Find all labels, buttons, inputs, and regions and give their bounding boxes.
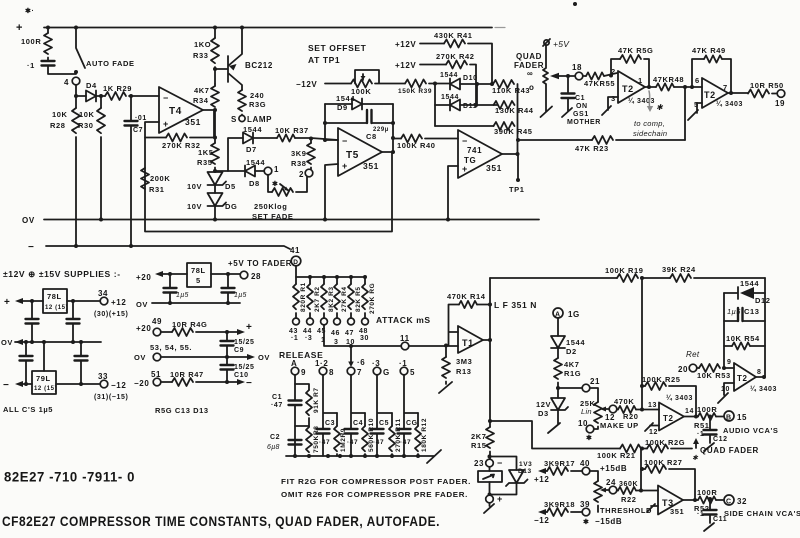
svg-text:−: − xyxy=(28,242,34,253)
svg-text:+12V: +12V xyxy=(395,40,416,49)
capacitor 1u5 a xyxy=(169,274,171,287)
resistor R3 8K2 xyxy=(323,277,325,284)
op-amp T4 xyxy=(159,87,203,133)
svg-text:47K R5G: 47K R5G xyxy=(618,46,653,55)
capacitor C8 229p xyxy=(325,122,367,124)
svg-text:46: 46 xyxy=(331,330,340,337)
resistor R55 47K xyxy=(583,75,586,77)
svg-text:100K R21: 100K R21 xyxy=(597,451,636,460)
svg-text:+: + xyxy=(163,119,169,129)
svg-text:D7: D7 xyxy=(246,145,257,154)
svg-text:47KR48: 47KR48 xyxy=(653,75,684,84)
svg-text:21: 21 xyxy=(590,377,600,386)
resistor R30 10K xyxy=(99,94,103,98)
svg-text:·47: ·47 xyxy=(373,439,384,446)
zener D6 10V xyxy=(214,185,216,193)
svg-text:✱: ✱ xyxy=(586,434,592,442)
resistor R2 2K7 xyxy=(309,277,311,284)
svg-text:+: + xyxy=(462,164,468,174)
svg-text:3K9: 3K9 xyxy=(291,149,307,158)
svg-text:·1: ·1 xyxy=(27,61,35,70)
svg-text:−: − xyxy=(462,136,468,146)
diode D4 xyxy=(76,95,86,97)
svg-text:MOTHER: MOTHER xyxy=(567,119,601,126)
svg-text:351: 351 xyxy=(670,507,684,516)
svg-text:19: 19 xyxy=(775,99,785,108)
svg-text:DG: DG xyxy=(225,202,237,211)
resistor R23 47K xyxy=(592,136,613,144)
svg-text:130K R44: 130K R44 xyxy=(495,106,534,115)
capacitor 1u5 b xyxy=(227,274,229,287)
switch AUTO FADE xyxy=(76,28,85,69)
node 4 xyxy=(72,77,80,85)
svg-text:32: 32 xyxy=(737,497,747,506)
svg-text:10K R54: 10K R54 xyxy=(726,334,760,343)
svg-text:−: − xyxy=(246,378,252,389)
svg-text:QUAD FADER: QUAD FADER xyxy=(700,446,759,455)
wire T5 output xyxy=(382,151,393,153)
svg-text:¼ 3403: ¼ 3403 xyxy=(750,385,777,393)
svg-text:49: 49 xyxy=(152,317,162,326)
svg-text:FIT R2G FOR COMPRESSOR POST FA: FIT R2G FOR COMPRESSOR POST FADER. xyxy=(281,477,471,486)
svg-text:8: 8 xyxy=(329,368,334,377)
svg-text:T4: T4 xyxy=(169,106,182,117)
wire -12V line xyxy=(325,83,351,85)
svg-text:+12: +12 xyxy=(111,298,126,307)
wire to node 28 xyxy=(211,273,240,275)
svg-text:100R: 100R xyxy=(697,488,717,497)
svg-text:270K R11: 270K R11 xyxy=(395,418,402,452)
resistor R42 270K xyxy=(420,64,446,66)
svg-text:10: 10 xyxy=(721,386,730,393)
svg-text:R38: R38 xyxy=(291,159,307,168)
svg-text:ALL C'S 1µ5: ALL C'S 1µ5 xyxy=(3,405,53,414)
resistor R36 240 xyxy=(238,90,246,111)
capacitor C1r .47 xyxy=(294,375,296,400)
resistor 100R xyxy=(47,28,49,34)
wire T2a pin3 ground xyxy=(602,97,618,115)
wire R21 row xyxy=(490,421,620,449)
transistor Q BC212 xyxy=(213,67,217,71)
resistor R41 430K xyxy=(420,43,444,45)
svg-text:1M2R9: 1M2R9 xyxy=(340,428,347,452)
svg-text:430K R41: 430K R41 xyxy=(434,31,473,40)
resistor R44 130K xyxy=(474,103,478,107)
svg-text:10R R47: 10R R47 xyxy=(170,370,204,379)
svg-text:1544: 1544 xyxy=(243,125,262,134)
svg-text:−: − xyxy=(342,136,348,146)
svg-text:✱: ✱ xyxy=(272,180,278,188)
resistor R19 100K xyxy=(617,274,638,282)
svg-text:10R R50: 10R R50 xyxy=(750,81,784,90)
svg-text:39: 39 xyxy=(580,500,590,509)
svg-text:10K: 10K xyxy=(52,110,68,119)
svg-text:10R R4G: 10R R4G xyxy=(172,320,207,329)
pot 25K Lin xyxy=(590,388,598,402)
svg-text:741: 741 xyxy=(467,146,482,155)
svg-text:·47: ·47 xyxy=(271,402,283,409)
resistor R8 750K xyxy=(295,426,309,427)
capacitor C7 .01 xyxy=(129,94,133,98)
svg-text:R15: R15 xyxy=(471,441,487,450)
svg-text:T1: T1 xyxy=(462,338,474,348)
capacitor C10 15/25 xyxy=(226,357,228,364)
svg-text:C1: C1 xyxy=(272,394,282,401)
svg-text:100R: 100R xyxy=(21,37,41,46)
svg-text:1KO: 1KO xyxy=(194,40,211,49)
resistor R31 200K xyxy=(141,168,149,189)
svg-text:−: − xyxy=(163,93,169,103)
svg-text:D8: D8 xyxy=(249,179,260,188)
svg-text:+5V TO FADER: +5V TO FADER xyxy=(228,259,292,268)
svg-text:20: 20 xyxy=(678,365,688,374)
svg-text:−12V: −12V xyxy=(296,80,317,89)
op-amp T1 LF351N xyxy=(458,326,483,353)
resistor R48 47K xyxy=(656,83,674,90)
node 28 xyxy=(240,271,248,279)
svg-text:C7: C7 xyxy=(133,127,143,134)
regulator 78L 5 xyxy=(187,263,211,287)
svg-text:ATTACK mS: ATTACK mS xyxy=(376,315,431,325)
resistor R24 39K xyxy=(670,274,691,282)
svg-text:−15dB: −15dB xyxy=(595,517,622,526)
node 7 xyxy=(347,367,355,375)
svg-text:−20: −20 xyxy=(134,379,149,388)
resistor R50 10R xyxy=(748,90,769,98)
resistor R37 10K xyxy=(277,134,295,141)
svg-text:R35: R35 xyxy=(197,158,213,167)
svg-text:9: 9 xyxy=(727,359,732,366)
node 11 xyxy=(401,342,409,350)
svg-text:1K5: 1K5 xyxy=(198,148,214,157)
resistor R32 270K feedback xyxy=(145,137,166,139)
svg-text:R22: R22 xyxy=(621,495,637,504)
resistor R14 470K feedback xyxy=(449,305,460,346)
svg-text:T2: T2 xyxy=(704,90,716,100)
svg-text:T2: T2 xyxy=(622,84,634,94)
resistor R16 4K7 xyxy=(557,348,559,358)
lamp xyxy=(239,115,245,121)
svg-text:6µ8: 6µ8 xyxy=(267,444,280,451)
op-amp T3 xyxy=(658,486,683,515)
SECTION top-left autofade xyxy=(16,7,539,253)
svg-text:C: C xyxy=(726,499,732,506)
node 39 xyxy=(582,508,590,516)
wire T6 output xyxy=(502,153,518,155)
svg-text:180K R12: 180K R12 xyxy=(421,418,428,452)
wire T4 output xyxy=(203,109,215,111)
zener D5 10V xyxy=(213,169,217,173)
svg-text:TP1: TP1 xyxy=(509,185,525,194)
svg-text:351: 351 xyxy=(185,117,201,127)
resistor R7 91K xyxy=(295,384,309,390)
wire +12 line xyxy=(67,300,100,302)
wire attack bus xyxy=(296,266,365,277)
svg-text:1µ5: 1µ5 xyxy=(727,307,741,316)
svg-text:OV: OV xyxy=(136,300,148,309)
svg-text:AT TP1: AT TP1 xyxy=(308,55,340,65)
op-amp T5 xyxy=(338,128,382,176)
svg-text:82E27 -710 -7911- 0: 82E27 -710 -7911- 0 xyxy=(4,470,135,485)
net 0V psu2 xyxy=(152,302,240,304)
resistor R27 100K feedback xyxy=(640,467,644,471)
op-amp T2a xyxy=(618,71,645,103)
capacitor C1 xyxy=(566,74,570,78)
svg-text:D: D xyxy=(293,259,298,266)
resistor R12 180K xyxy=(417,413,419,426)
svg-text:(30)(+15): (30)(+15) xyxy=(94,311,128,318)
capacitor C5 .47 xyxy=(377,375,392,428)
resistor R39 150K xyxy=(405,80,426,88)
wire T5 plus input xyxy=(325,164,338,220)
svg-text:270K R32: 270K R32 xyxy=(162,141,201,150)
zener D3 12V xyxy=(556,386,560,390)
diode D12 1544 xyxy=(724,292,765,294)
capacitor C13 1u5 xyxy=(724,320,738,322)
svg-text:✱: ✱ xyxy=(656,103,664,112)
wire node4 down xyxy=(75,85,77,96)
svg-text:390K R45: 390K R45 xyxy=(494,127,533,136)
resistor R10 560K xyxy=(364,413,366,426)
svg-text:C8: C8 xyxy=(366,132,377,141)
capacitor C11 .1 xyxy=(708,497,712,501)
svg-text:SIDE CHAIN VCA'S: SIDE CHAIN VCA'S xyxy=(724,509,800,518)
wire T2c output xyxy=(756,376,765,378)
svg-text:100K R25: 100K R25 xyxy=(642,375,681,384)
svg-text:3K9R18: 3K9R18 xyxy=(544,500,575,509)
wire attack tap to T1 xyxy=(324,325,458,346)
svg-text:OV: OV xyxy=(258,353,270,362)
wire R23 junction xyxy=(516,138,520,142)
svg-text:1544: 1544 xyxy=(246,158,265,167)
regulator 78L xyxy=(43,289,67,313)
svg-text:15/25: 15/25 xyxy=(234,339,255,346)
resistor R56 47K feedback xyxy=(609,74,613,78)
resistor R4 27K xyxy=(336,277,338,284)
svg-text:11: 11 xyxy=(400,334,410,343)
op-amp T2d xyxy=(659,403,684,431)
svg-text:T2: T2 xyxy=(663,414,674,423)
svg-text:D3: D3 xyxy=(538,409,549,418)
svg-text:33: 33 xyxy=(98,372,108,381)
svg-text:SET OFFSET: SET OFFSET xyxy=(308,43,367,53)
svg-text:R34: R34 xyxy=(193,96,209,105)
svg-text:CG: CG xyxy=(406,420,418,427)
svg-text:+: + xyxy=(342,161,348,171)
svg-text:+5V: +5V xyxy=(553,39,570,49)
svg-text:100K: 100K xyxy=(351,87,371,96)
svg-text:LAMP: LAMP xyxy=(247,115,272,124)
svg-text:ON: ON xyxy=(576,103,588,110)
svg-text:Lin: Lin xyxy=(581,407,592,416)
resistor R33 1K0 xyxy=(214,28,216,39)
svg-text:−12: −12 xyxy=(111,381,126,390)
resistor R26 100K xyxy=(640,447,644,451)
svg-text:15/25: 15/25 xyxy=(234,364,255,371)
svg-text:3: 3 xyxy=(611,94,616,103)
svg-text:1: 1 xyxy=(274,165,279,174)
svg-text:1544: 1544 xyxy=(566,338,585,347)
svg-text:D13: D13 xyxy=(518,468,532,475)
svg-text:R51: R51 xyxy=(694,421,710,430)
svg-text:−: − xyxy=(497,458,503,468)
svg-text:10K R53: 10K R53 xyxy=(697,371,731,380)
svg-text:+12: +12 xyxy=(534,475,549,484)
svg-text:✱: ✱ xyxy=(583,518,589,526)
svg-text:R3G: R3G xyxy=(249,100,266,109)
svg-text:L F 351 N: L F 351 N xyxy=(494,300,537,310)
svg-text:R13: R13 xyxy=(456,367,472,376)
wire T2d output xyxy=(684,416,698,418)
op-amp T6 741 xyxy=(458,130,502,178)
svg-text:560K R10: 560K R10 xyxy=(368,418,375,452)
svg-text:12V: 12V xyxy=(536,400,551,409)
svg-text:+20: +20 xyxy=(136,273,151,282)
svg-text:MAKE UP: MAKE UP xyxy=(600,421,639,430)
svg-text:110K R43: 110K R43 xyxy=(492,86,530,95)
resistor R43 110K xyxy=(475,82,479,86)
node 23 xyxy=(488,455,492,459)
svg-text:240: 240 xyxy=(250,91,264,100)
svg-text:+20: +20 xyxy=(136,324,151,333)
svg-text:R1G: R1G xyxy=(564,369,581,378)
wire 0V junction dots xyxy=(99,218,103,222)
wire junction dots top rail xyxy=(46,26,50,30)
svg-text:1: 1 xyxy=(638,76,643,85)
svg-text:8K2 R3: 8K2 R3 xyxy=(328,286,335,312)
svg-text:53, 54, 55.: 53, 54, 55. xyxy=(150,343,192,352)
svg-text:AUDIO VCA'S: AUDIO VCA'S xyxy=(723,426,778,435)
regulator 79L xyxy=(43,342,45,371)
svg-text:4K7: 4K7 xyxy=(564,360,580,369)
svg-text:4K7: 4K7 xyxy=(194,86,210,95)
resistor R54 10K xyxy=(724,345,732,347)
svg-text:10V: 10V xyxy=(187,202,202,211)
resistor R20 470K xyxy=(617,409,618,411)
svg-text:·01: ·01 xyxy=(135,115,147,122)
svg-text:·47: ·47 xyxy=(400,439,411,446)
svg-text:·47: ·47 xyxy=(319,439,330,446)
svg-text:OMIT R26 FOR COMPRESSOR PRE FA: OMIT R26 FOR COMPRESSOR PRE FADER. xyxy=(281,490,468,499)
node B 15 audio xyxy=(724,411,734,421)
resistor R28 10K xyxy=(75,96,77,108)
node 18 xyxy=(575,72,583,80)
arrow quad fader xyxy=(695,442,697,448)
svg-text:1µ5: 1µ5 xyxy=(176,292,189,299)
svg-text:±12V ⊕ ±15V SUPPLIES :-: ±12V ⊕ ±15V SUPPLIES :- xyxy=(3,269,121,279)
svg-text:D12: D12 xyxy=(755,296,771,305)
resistor R25 100K feedback xyxy=(640,384,644,388)
svg-text:470K: 470K xyxy=(614,397,634,406)
capacitor C3 .47 xyxy=(323,375,337,428)
svg-text:1544: 1544 xyxy=(441,94,459,101)
svg-text:2: 2 xyxy=(299,170,304,179)
arrow to comp sidechain xyxy=(649,91,650,108)
svg-text:OV: OV xyxy=(134,353,146,362)
svg-text:5: 5 xyxy=(196,276,201,285)
svg-text:10: 10 xyxy=(578,419,588,428)
resistor R51 100R xyxy=(698,413,716,420)
svg-text:R33: R33 xyxy=(193,51,209,60)
svg-text:T2: T2 xyxy=(737,374,748,383)
svg-text:to comp,: to comp, xyxy=(634,119,665,128)
node 33 xyxy=(100,380,108,388)
svg-text:R20: R20 xyxy=(623,412,639,421)
pot 250K log SET FADE xyxy=(268,175,272,192)
svg-text:12: 12 xyxy=(649,429,658,436)
resistor R45 390K xyxy=(435,125,494,127)
svg-text:R30: R30 xyxy=(78,121,94,130)
svg-text:470K R14: 470K R14 xyxy=(447,292,486,301)
svg-text:351: 351 xyxy=(363,161,379,171)
wire T2a output xyxy=(645,86,656,88)
resistor R34 4K7 xyxy=(214,84,216,86)
node A 16 xyxy=(553,308,563,318)
svg-text:D5: D5 xyxy=(225,182,236,191)
resistor R53 10K xyxy=(697,367,699,369)
diode D9 1544 xyxy=(325,103,352,105)
svg-text:15: 15 xyxy=(737,413,747,422)
svg-text:78L: 78L xyxy=(191,266,206,275)
capacitor psu c xyxy=(25,342,27,355)
capacitor psu b xyxy=(72,301,74,318)
wire + rail xyxy=(44,27,492,29)
svg-text:78L: 78L xyxy=(47,292,62,301)
svg-text:✱: ✱ xyxy=(692,454,699,462)
resistor R29 1K xyxy=(105,92,126,100)
resistor R49 47K feedback xyxy=(690,85,694,89)
svg-text:C11: C11 xyxy=(713,516,727,523)
net 0V psu xyxy=(15,341,101,343)
wire far right column xyxy=(764,278,766,377)
svg-text:3K9R17: 3K9R17 xyxy=(544,459,575,468)
pot R22 360K xyxy=(590,471,598,481)
svg-text:·3: ·3 xyxy=(305,335,312,342)
wire T2b output xyxy=(728,92,748,94)
node C 32 sidechain xyxy=(724,495,734,505)
diode D7 1544 xyxy=(228,138,243,171)
svg-text:T5: T5 xyxy=(346,150,359,161)
svg-text:¼ 3403: ¼ 3403 xyxy=(628,97,655,105)
svg-text:C1: C1 xyxy=(575,95,585,102)
svg-text:10K R37: 10K R37 xyxy=(275,126,309,135)
resistor R13 3M3 xyxy=(444,344,448,348)
svg-text:−: − xyxy=(3,380,9,391)
svg-text:✱·: ✱· xyxy=(25,7,34,15)
svg-text:+: + xyxy=(16,22,23,34)
svg-text:820R R1: 820R R1 xyxy=(300,282,307,312)
svg-text:(31)(−15): (31)(−15) xyxy=(94,394,128,401)
svg-text:41: 41 xyxy=(290,246,300,255)
svg-text:∞: ∞ xyxy=(527,69,533,78)
svg-text:8: 8 xyxy=(757,369,762,376)
zener D13 1V3 xyxy=(490,457,517,471)
wire T6 plus input xyxy=(448,166,458,220)
svg-text:o: o xyxy=(529,83,535,92)
svg-text:BC212: BC212 xyxy=(245,61,273,70)
net minus rail xyxy=(46,246,290,249)
svg-text:C2: C2 xyxy=(270,434,280,441)
resistor R17 3K9 xyxy=(543,470,547,472)
svg-text:28: 28 xyxy=(251,272,261,281)
svg-text:G: G xyxy=(383,368,390,377)
svg-text:91K R7: 91K R7 xyxy=(313,387,320,413)
svg-text:2K7 R2: 2K7 R2 xyxy=(314,286,321,312)
svg-text:C13: C13 xyxy=(744,307,760,316)
diode D2 1544 xyxy=(557,318,559,336)
svg-text:D2: D2 xyxy=(566,347,577,356)
capacitor C2 6u8 xyxy=(289,440,302,445)
